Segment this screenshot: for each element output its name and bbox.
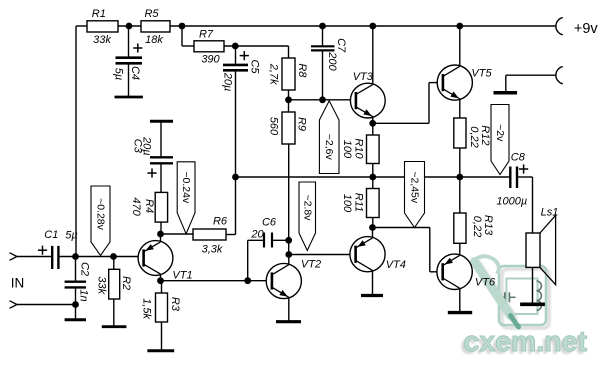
svg-text:18k: 18k xyxy=(145,34,163,46)
svg-text:33k: 33k xyxy=(93,34,111,46)
svg-text:200: 200 xyxy=(326,51,338,71)
svg-text:R10: R10 xyxy=(353,138,365,159)
svg-text:33k: 33k xyxy=(95,276,107,294)
svg-text:C6: C6 xyxy=(262,217,277,229)
svg-text:100: 100 xyxy=(341,140,353,159)
svg-text:VT5: VT5 xyxy=(471,68,492,80)
svg-text:+9v: +9v xyxy=(574,21,599,37)
svg-text:~0.24v: ~0.24v xyxy=(180,171,192,204)
svg-text:~2v: ~2v xyxy=(494,124,506,142)
svg-text:~2,6v: ~2,6v xyxy=(323,134,335,161)
svg-text:3,3k: 3,3k xyxy=(202,244,223,256)
svg-text:R8: R8 xyxy=(296,63,308,78)
svg-text:5µ: 5µ xyxy=(112,68,124,80)
svg-text:VT1: VT1 xyxy=(172,270,192,282)
svg-text:1000µ: 1000µ xyxy=(496,196,527,208)
svg-text:C1: C1 xyxy=(44,229,58,241)
svg-text:~0.28v: ~0.28v xyxy=(95,198,107,231)
svg-text:C4: C4 xyxy=(129,66,141,80)
svg-text:IN: IN xyxy=(11,276,25,291)
svg-text:390: 390 xyxy=(201,54,220,66)
svg-text:0,22: 0,22 xyxy=(468,126,480,147)
svg-text:R4: R4 xyxy=(143,199,155,213)
svg-text:cxem.net: cxem.net xyxy=(464,326,588,358)
svg-text:20µ: 20µ xyxy=(141,136,153,156)
svg-text:R7: R7 xyxy=(199,29,214,41)
svg-text:VT3: VT3 xyxy=(353,71,374,83)
svg-text:1,5k: 1,5k xyxy=(141,298,153,319)
svg-text:0,22: 0,22 xyxy=(471,216,483,237)
svg-text:VT2: VT2 xyxy=(301,259,321,271)
svg-text:R1: R1 xyxy=(92,8,106,20)
svg-text:1n: 1n xyxy=(77,289,89,301)
svg-text:560: 560 xyxy=(268,117,280,136)
svg-text:VT6: VT6 xyxy=(475,276,496,288)
svg-text:R2: R2 xyxy=(120,276,132,290)
svg-text:~2.8v: ~2.8v xyxy=(301,195,313,222)
svg-text:R12: R12 xyxy=(479,125,491,145)
svg-text:20: 20 xyxy=(250,229,264,241)
svg-text:470: 470 xyxy=(130,197,142,216)
svg-text:VT4: VT4 xyxy=(386,259,406,271)
svg-text:R9: R9 xyxy=(296,117,308,131)
svg-text:R6: R6 xyxy=(213,216,228,228)
svg-text:100: 100 xyxy=(341,194,353,213)
svg-text:R11: R11 xyxy=(353,193,365,212)
svg-text:C2: C2 xyxy=(78,262,90,276)
svg-text:C7: C7 xyxy=(335,38,347,53)
svg-text:R5: R5 xyxy=(144,8,159,20)
svg-text:R3: R3 xyxy=(169,297,181,312)
svg-text:~2,45v: ~2,45v xyxy=(409,171,421,204)
svg-text:C5: C5 xyxy=(249,59,261,74)
svg-text:20µ: 20µ xyxy=(222,72,234,92)
svg-text:2,7k: 2,7k xyxy=(268,63,280,85)
svg-text:5µ: 5µ xyxy=(65,230,77,242)
svg-text:C8: C8 xyxy=(511,152,526,164)
